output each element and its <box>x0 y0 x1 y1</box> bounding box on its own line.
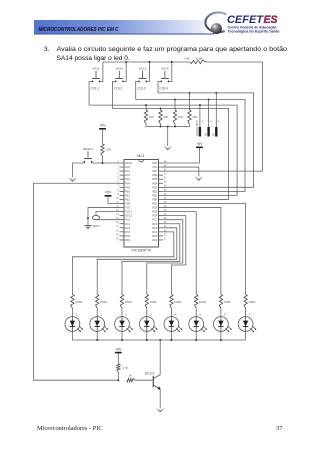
switch SA12 (push button) <box>92 67 101 83</box>
svg-text:BC337: BC337 <box>145 371 155 375</box>
svg-text:100R: 100R <box>125 300 133 304</box>
svg-text:100R: 100R <box>75 300 83 304</box>
wire pin to LED column 3 <box>122 224 180 295</box>
svg-text:RE0: RE0 <box>125 190 130 193</box>
junction COL3/R3 <box>174 98 176 100</box>
resistor R14 1K (base) <box>127 374 135 382</box>
LED D3 <box>139 308 157 332</box>
svg-text:2: 2 <box>117 165 119 167</box>
svg-text:6: 6 <box>224 312 226 316</box>
svg-text:4Q: 4Q <box>205 133 208 136</box>
resistor R12 100R (LED 6) <box>219 295 231 309</box>
LED D2 <box>115 308 133 332</box>
svg-text:RB0: RB0 <box>152 198 157 201</box>
resistor R2 10K pull-down <box>159 108 169 126</box>
svg-text:PIC16F877A: PIC16F877A <box>131 249 151 253</box>
svg-text:18: 18 <box>116 230 119 232</box>
wire LED 3 cathode <box>146 331 148 340</box>
resistor R5 10K (reset pull-up) <box>101 144 112 156</box>
wire VSS pin to ground <box>163 167 199 176</box>
junction rail/ground stem <box>167 126 169 128</box>
svg-text:100R: 100R <box>224 300 232 304</box>
svg-text:10: 10 <box>116 198 119 200</box>
svg-text:5: 5 <box>117 178 119 180</box>
resistor R9 100R (LED 3) <box>145 295 157 309</box>
switch SA14 (push button) <box>115 67 124 83</box>
switch RESET (push button) <box>83 147 93 163</box>
resistor R8 100R (LED 2) <box>120 295 132 309</box>
svg-text:1: 1 <box>202 119 204 123</box>
resistor R6 100R (LED 0) <box>71 295 83 309</box>
svg-text:SA15: SA15 <box>161 67 169 71</box>
wire RESET to MCLR pin <box>92 162 120 164</box>
wire 1K to base <box>135 379 154 381</box>
svg-text:3: 3 <box>150 312 152 316</box>
svg-text:RC6: RC6 <box>152 223 158 226</box>
svg-text:SA13: SA13 <box>139 67 147 71</box>
wire R5 to MCLR net <box>102 156 104 163</box>
ground (reset button) <box>68 177 77 182</box>
svg-text:21: 21 <box>164 238 167 240</box>
crystal X1 <box>92 214 99 220</box>
wire RD6 to LED column 7 <box>163 208 221 295</box>
svg-text:1: 1 <box>210 119 212 123</box>
svg-text:RC0: RC0 <box>125 219 131 222</box>
wire +5V to left VDD pin <box>108 197 120 204</box>
svg-text:VDD: VDD <box>152 162 157 165</box>
resistor R11 100R (LED 5) <box>195 295 207 309</box>
wire LED 0 cathode <box>71 331 73 340</box>
svg-text:5: 5 <box>199 312 201 316</box>
svg-text:100R: 100R <box>100 300 108 304</box>
svg-text:19: 19 <box>116 234 119 236</box>
junction J2 <box>208 98 210 100</box>
wire COL2 drop <box>112 81 115 108</box>
ground (pull-down rail) <box>163 146 172 151</box>
svg-text:RD7: RD7 <box>152 203 158 206</box>
wire rail to collector <box>159 340 161 375</box>
junction rail/collector <box>159 339 161 341</box>
+5V flag (transistor pull-up) <box>115 347 122 353</box>
svg-text:7: 7 <box>117 186 119 188</box>
svg-text:ES: ES <box>264 14 278 26</box>
svg-text:CEFET: CEFET <box>227 14 265 26</box>
svg-text:100R: 100R <box>248 300 256 304</box>
wire +5V to VDD pin <box>163 148 199 163</box>
junction cathode rail <box>146 339 148 341</box>
LED D6 <box>214 308 232 332</box>
resistor R3 10K pull-down <box>173 99 183 126</box>
svg-text:RC4: RC4 <box>152 231 158 234</box>
terminal J2 (black bar) <box>205 99 213 136</box>
LED D1 <box>90 308 108 332</box>
wire pull-down common rail <box>146 126 190 128</box>
resistor LR8 220R (row series) <box>190 60 206 63</box>
svg-text:RB5: RB5 <box>152 178 157 181</box>
svg-text:1: 1 <box>218 119 220 123</box>
svg-text:RC7: RC7 <box>152 219 158 222</box>
svg-text:COL4: COL4 <box>160 86 169 90</box>
junction J3 <box>215 92 217 94</box>
junction cathode rail <box>170 339 172 341</box>
wire emitter to ground <box>159 390 161 409</box>
wire LED cathode rail <box>72 339 245 341</box>
LED D0 <box>65 308 83 332</box>
wire LED 6 cathode <box>220 331 222 340</box>
svg-text:RD0: RD0 <box>125 235 131 238</box>
svg-text:OSC1: OSC1 <box>125 211 132 214</box>
svg-text:Microcontroladores - PIC: Microcontroladores - PIC <box>37 425 103 432</box>
svg-text:4: 4 <box>117 174 119 176</box>
svg-text:RC5: RC5 <box>152 227 158 230</box>
svg-text:Avalia o circuito seguinte e f: Avalia o circuito seguinte e faz um prog… <box>57 46 288 53</box>
terminal J1 (black bar) <box>196 105 204 136</box>
svg-text:16: 16 <box>116 222 119 224</box>
wire left VSS to ground <box>88 208 120 226</box>
wire LED 5 cathode <box>195 331 197 340</box>
svg-text:OSC2: OSC2 <box>125 215 132 218</box>
svg-text:37: 37 <box>276 425 283 432</box>
junction crystal/VSS line <box>87 217 89 219</box>
resistor R13 100R (LED 7) <box>244 295 256 309</box>
svg-text:RE2: RE2 <box>125 198 130 201</box>
LED D7 <box>238 308 256 332</box>
svg-text:+5V: +5V <box>99 124 106 128</box>
wire +5V to 4K7 <box>117 353 119 363</box>
resistor R4 10K pull-down <box>188 93 198 127</box>
LED D5 <box>189 308 207 332</box>
wire pin to LED column 5 <box>163 216 186 295</box>
switch SA15 (push button) <box>160 67 169 83</box>
wire RESET to ground <box>73 163 85 177</box>
wire switch SA13 to +rail <box>147 62 150 81</box>
wire LED 7 cathode <box>245 331 247 340</box>
wire COL1 drop <box>89 81 92 105</box>
svg-text:RD1: RD1 <box>125 239 131 242</box>
svg-text:RB3: RB3 <box>152 186 157 189</box>
junction COL2/R2 <box>160 107 162 109</box>
svg-text:MCLR: MCLR <box>125 162 132 165</box>
wire switch SA15 to +rail <box>169 62 172 81</box>
svg-text:MC1: MC1 <box>137 154 145 158</box>
svg-text:RA2: RA2 <box>125 174 130 177</box>
svg-text:RB4: RB4 <box>152 182 157 185</box>
logo swoosh <box>205 12 226 32</box>
wire COL1 to PIC <box>89 105 237 195</box>
svg-text:20: 20 <box>116 238 119 240</box>
svg-text:100R: 100R <box>199 300 207 304</box>
wire COL4 drop <box>158 81 161 93</box>
junction rail/SA14 <box>125 61 127 63</box>
svg-text:10K: 10K <box>192 115 197 119</box>
svg-text:100R: 100R <box>149 300 157 304</box>
wire COL3 drop <box>136 81 139 99</box>
svg-text:RD6: RD6 <box>152 207 158 210</box>
svg-text:4: 4 <box>175 312 177 316</box>
resistor R1 10K pull-down <box>144 105 154 126</box>
svg-text:10K: 10K <box>163 115 168 119</box>
junction rail/SA15 <box>171 61 173 63</box>
svg-text:2: 2 <box>125 312 127 316</box>
MC1 right pins (stubs, numbers, names) <box>152 161 167 242</box>
wire RA4 to transistor base net <box>34 183 120 380</box>
svg-text:0: 0 <box>76 312 78 316</box>
svg-text:10K: 10K <box>106 148 111 152</box>
svg-text:RB1: RB1 <box>152 194 157 197</box>
svg-text:1K: 1K <box>128 374 132 378</box>
junction rail/SA13 <box>149 61 151 63</box>
junction base net/4K7 <box>117 379 119 381</box>
wire row rail to PIC RB7 <box>163 62 263 171</box>
junction COL4/R4 <box>189 92 191 94</box>
svg-text:COL1: COL1 <box>91 86 100 90</box>
wire switch SA14 to +rail <box>124 62 127 81</box>
wire pin to LED column 1 <box>72 232 173 295</box>
svg-text:RC2: RC2 <box>125 227 131 230</box>
svg-text:8: 8 <box>117 190 119 192</box>
svg-text:4MHz: 4MHz <box>93 224 101 228</box>
svg-text:RD2: RD2 <box>152 239 158 242</box>
junction pull-down rail <box>160 126 162 128</box>
svg-text:RC1: RC1 <box>125 223 131 226</box>
wire COL2 to PIC <box>112 108 228 199</box>
svg-text:RD3: RD3 <box>152 235 158 238</box>
svg-text:RB6: RB6 <box>152 174 157 177</box>
svg-text:Tecnológica do Espírito Santo: Tecnológica do Espírito Santo <box>228 30 280 34</box>
junction COL1/R1 <box>145 104 147 106</box>
svg-text:3.: 3. <box>44 46 50 53</box>
svg-text:RB2: RB2 <box>152 190 157 193</box>
svg-text:2SC945 P8C0: 2SC945 P8C0 <box>196 120 199 136</box>
wire pin to LED column 2 <box>97 228 177 295</box>
svg-text:VDD: VDD <box>125 203 130 206</box>
logo sphere <box>211 23 222 34</box>
svg-text:14: 14 <box>116 214 119 216</box>
resistor R10 100R (LED 4) <box>170 295 182 309</box>
svg-text:COL2: COL2 <box>114 86 123 90</box>
wire COL4 to PIC <box>158 93 254 187</box>
svg-text:3: 3 <box>117 170 119 172</box>
resistor R7 100R (LED 1) <box>96 295 108 309</box>
+5V flag (left VDD) <box>105 191 112 197</box>
svg-text:+5V: +5V <box>196 142 203 146</box>
junction cathode rail <box>195 339 197 341</box>
junction R5/MCLR net <box>102 162 104 164</box>
svg-text:RD4: RD4 <box>152 215 158 218</box>
svg-text:COL3: COL3 <box>137 86 146 90</box>
wire OSC1 to crystal <box>96 212 120 214</box>
ground (emitter) <box>156 408 165 413</box>
svg-text:4.7K: 4.7K <box>122 366 128 370</box>
svg-text:VSS: VSS <box>152 166 157 169</box>
wire pin to LED column 4 <box>147 220 183 295</box>
wire RD5 to LED column 6 <box>163 212 196 295</box>
header bar underline <box>34 34 214 35</box>
svg-text:100R: 100R <box>174 300 182 304</box>
wire LED 4 cathode <box>170 331 172 340</box>
svg-text:+5V: +5V <box>105 191 112 195</box>
wire RD7 to LED column 8 <box>163 204 246 295</box>
MC1 left pins (stubs, numbers, names) <box>116 161 132 242</box>
svg-text:RC3: RC3 <box>125 231 131 234</box>
transistor Q1 BC337 <box>145 371 161 389</box>
svg-text:RA4: RA4 <box>125 182 130 185</box>
svg-text:10K: 10K <box>178 115 183 119</box>
svg-text:RA1: RA1 <box>125 170 130 173</box>
svg-text:VSS: VSS <box>125 207 130 210</box>
svg-text:37: 37 <box>164 174 167 176</box>
svg-text:RB7: RB7 <box>152 170 157 173</box>
svg-text:9: 9 <box>117 194 119 196</box>
svg-text:MICROCONTROLADORES PIC EM C: MICROCONTROLADORES PIC EM C <box>39 27 119 33</box>
svg-text:SA14 possa ligar o led 0.: SA14 possa ligar o led 0. <box>57 55 130 62</box>
svg-text:LR8: LR8 <box>184 56 190 60</box>
svg-text:RA5: RA5 <box>125 186 130 189</box>
+5V flag (reset pull-up) <box>99 124 106 130</box>
junction cathode rail <box>121 339 123 341</box>
switch SA13 (push button) <box>138 67 147 83</box>
op-amp region: microcontroller MC1 PIC16F877A body <box>124 154 159 252</box>
LED D4 <box>164 308 182 332</box>
svg-text:220R: 220R <box>196 56 204 60</box>
junction cathode rail <box>220 339 222 341</box>
svg-text:10K: 10K <box>149 115 154 119</box>
wire top row rail <box>103 61 190 63</box>
junction pull-down rail <box>174 126 176 128</box>
ground (left VSS, bar style) <box>84 226 91 229</box>
wire to ground <box>167 127 169 147</box>
wire crystal to OSC2 <box>96 219 120 221</box>
svg-text:17: 17 <box>116 226 119 228</box>
wire LED 2 cathode <box>121 331 123 340</box>
wire +5V to R5 <box>102 130 104 144</box>
svg-text:RE1: RE1 <box>125 194 130 197</box>
svg-text:7: 7 <box>249 312 251 316</box>
svg-text:+5V: +5V <box>115 347 122 351</box>
svg-text:35: 35 <box>164 182 167 184</box>
ground (right VSS) <box>195 176 204 181</box>
svg-text:RA3: RA3 <box>125 178 130 181</box>
wire 4K7 to base net <box>117 372 119 380</box>
wire COL3 to PIC <box>136 99 245 191</box>
svg-text:22: 22 <box>164 234 167 236</box>
terminal J3 (black bar) <box>212 93 220 137</box>
junction cathode rail <box>96 339 98 341</box>
svg-text:9P: 9P <box>212 133 215 136</box>
svg-text:RESET: RESET <box>83 147 93 151</box>
svg-text:RA0: RA0 <box>125 166 130 169</box>
wire LED 1 cathode <box>96 331 98 340</box>
+5V flag (right VDD) <box>196 142 203 148</box>
svg-text:36: 36 <box>164 178 167 180</box>
junction J1 <box>199 104 201 106</box>
svg-text:SA14: SA14 <box>116 67 124 71</box>
resistor R15 4.7K (pull-up) <box>117 364 128 372</box>
svg-text:SA12: SA12 <box>92 67 100 71</box>
wire switch SA12 to +rail <box>100 62 103 81</box>
svg-text:RD5: RD5 <box>152 211 158 214</box>
svg-text:1: 1 <box>100 312 102 316</box>
header blue bar <box>34 20 205 34</box>
